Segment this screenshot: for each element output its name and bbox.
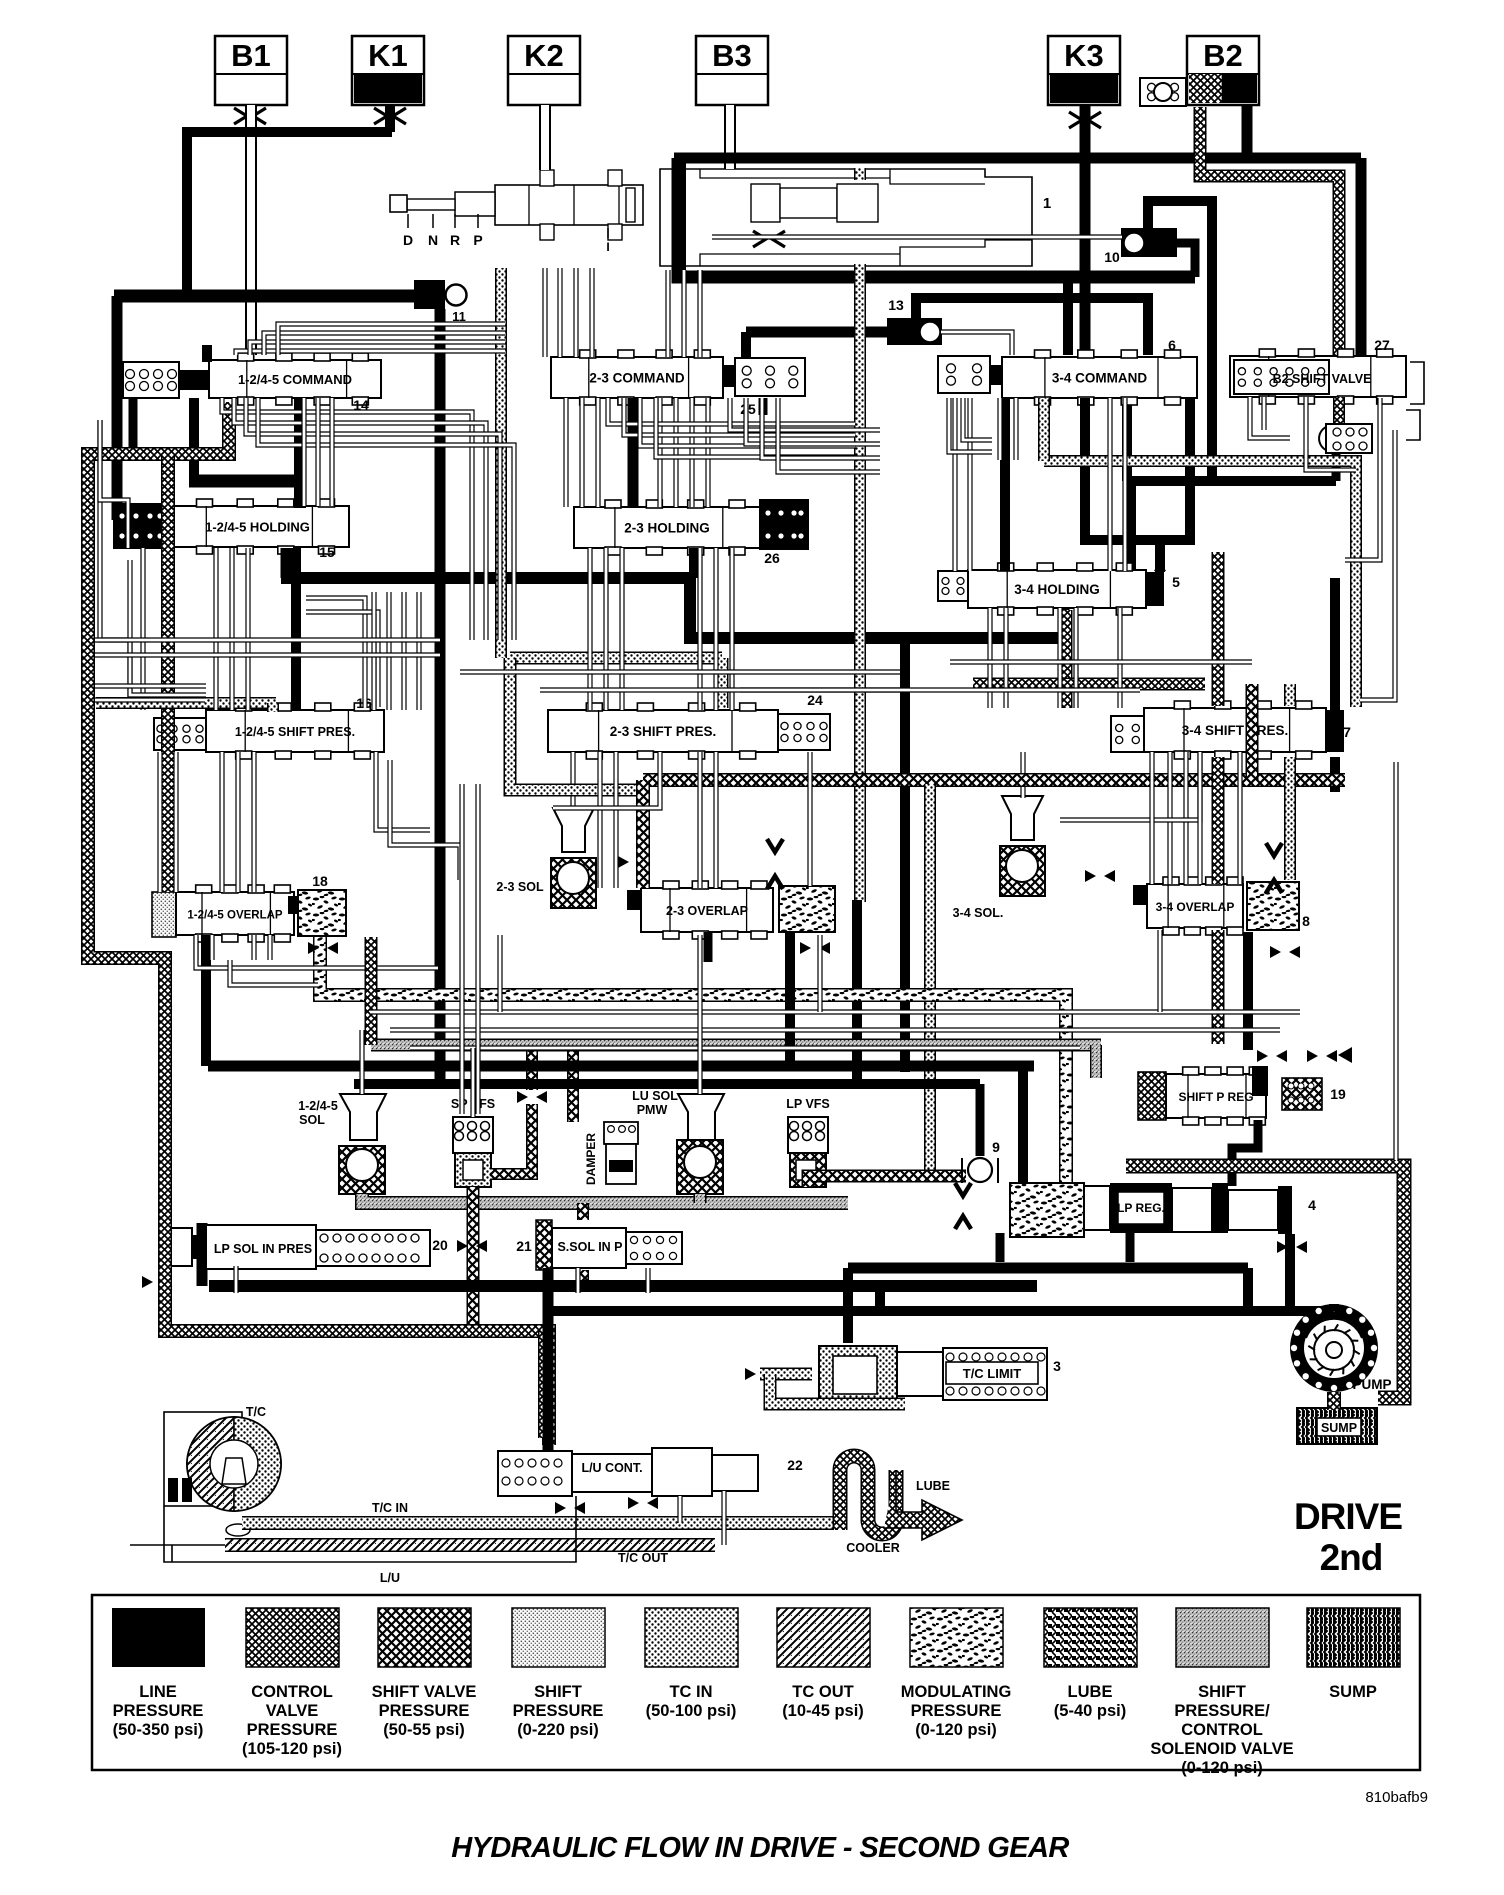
wire: B3 drop <box>724 105 736 169</box>
svg-text:26: 26 <box>764 550 780 566</box>
hatch: damper feed col <box>567 1049 579 1122</box>
legend swatch SHIFT <box>1176 1608 1269 1667</box>
svg-text:3-4 HOLDING: 3-4 HOLDING <box>1014 582 1100 597</box>
svg-text:(50-350 psi): (50-350 psi) <box>113 1721 204 1739</box>
wire: thick bus y1066 <box>208 1061 1034 1072</box>
wire: right vertical to valve27 <box>1356 158 1367 388</box>
wire: 3-4 shift pres right vert <box>1330 578 1340 710</box>
hatch: dotted stub below valve6 <box>1038 398 1050 461</box>
thin bundle: right stack verticals <box>1345 398 1380 560</box>
wire: L/U thin <box>172 1496 576 1562</box>
thin bundle: holding15 to shiftpres16 <box>213 548 218 710</box>
wire: valve25 stub <box>759 398 768 415</box>
svg-text:L/U: L/U <box>380 1571 400 1585</box>
thin loop left of shiftpres16 <box>100 420 130 700</box>
svg-text:(105-120 psi): (105-120 psi) <box>242 1740 342 1758</box>
wire: B2 cv hatched drop <box>1200 107 1339 360</box>
svg-text:LU SOL: LU SOL <box>632 1089 678 1103</box>
manual valve black porting C <box>672 158 686 276</box>
hatch: 3-4 area horizontal <box>973 678 1205 691</box>
bracket right of valve27 <box>1410 362 1424 404</box>
clutch box K2 <box>508 36 580 105</box>
wire: valve6 right drop <box>1122 398 1132 481</box>
wire: bus1084 segment <box>354 1079 980 1089</box>
hatch: tc to lucont <box>242 1516 258 1530</box>
wire: command14 top stub <box>202 345 212 362</box>
valve 25: 2-3 COMMAND <box>551 350 805 405</box>
junction node 10 <box>1121 228 1177 257</box>
wire: lpreg to bus <box>1018 1066 1028 1183</box>
wire: y481 bar <box>189 475 306 488</box>
legend box <box>92 1595 1420 1770</box>
svg-text:(0-220 psi): (0-220 psi) <box>517 1721 599 1739</box>
svg-text:20: 20 <box>432 1237 448 1253</box>
svg-text:I: I <box>606 240 609 254</box>
svg-text:1-2/4-5 COMMAND: 1-2/4-5 COMMAND <box>238 372 352 387</box>
svg-text:B2 SHIFT VALVE: B2 SHIFT VALVE <box>1273 372 1372 386</box>
svg-text:2-3 OVERLAP: 2-3 OVERLAP <box>666 904 748 918</box>
hatch: dotted col x860 <box>854 264 866 902</box>
svg-text:K2: K2 <box>524 38 564 73</box>
thin bundle: 3-4 holding down <box>987 608 992 708</box>
wire: holding15 bottom stub <box>281 548 292 578</box>
solenoid LU SOL PMW <box>677 1094 724 1194</box>
restrictor at B1 <box>234 108 247 124</box>
wire: into 3-4 holding bottom <box>1059 608 1070 638</box>
valve 16: 1-2/4-5 SHIFT PRES. <box>154 703 384 759</box>
svg-text:B3: B3 <box>712 38 752 73</box>
wire: x1248 riser <box>1243 1268 1253 1311</box>
svg-text:4: 4 <box>1308 1197 1316 1213</box>
wire: x905 long vert <box>900 632 910 1072</box>
svg-text:10: 10 <box>1104 249 1120 265</box>
valve 20: LP SOL IN PRES <box>162 1225 430 1269</box>
selector positions D N R P <box>407 214 409 228</box>
legend swatch SHIFT <box>512 1608 605 1667</box>
wire: K2 drop <box>539 105 551 170</box>
check arrows above 2-3 overlap <box>767 839 783 852</box>
svg-text:LUBE: LUBE <box>1068 1683 1113 1701</box>
hatch: sump loop down <box>538 1331 552 1438</box>
restrictor left of 3-4 overlap <box>1085 870 1096 882</box>
svg-text:HYDRAULIC FLOW IN DRIVE - SECO: HYDRAULIC FLOW IN DRIVE - SECOND GEAR <box>451 1832 1069 1864</box>
svg-text:13: 13 <box>888 297 904 313</box>
wire: y277 bus drop into 3-4 command <box>1063 277 1073 355</box>
hatch: valve21 stubs <box>577 1203 589 1220</box>
svg-text:CONTROL: CONTROL <box>251 1683 333 1701</box>
hatch: left margin big loop <box>88 402 549 1445</box>
thin bundle: 3-4 shiftpres down <box>1167 752 1172 884</box>
svg-text:SUMP: SUMP <box>1329 1683 1377 1701</box>
hatch: solenoid common rail <box>362 1194 848 1203</box>
wire: k3 line into holding5 <box>1000 398 1010 571</box>
svg-text:MODULATING: MODULATING <box>901 1683 1012 1701</box>
svg-text:1-2/4-5 SHIFT PRES.: 1-2/4-5 SHIFT PRES. <box>235 725 355 739</box>
wire: node10 up loop <box>1148 201 1212 481</box>
hatch: k2 column dotted <box>495 268 507 658</box>
svg-text:TC IN: TC IN <box>669 1683 712 1701</box>
thin bundle: valve24 conn down <box>807 752 812 886</box>
valve 3: T/C LIMIT <box>819 1346 1047 1404</box>
wire: node11 long vertical <box>435 309 446 1084</box>
wire: y578-638 elbow <box>690 578 1064 638</box>
svg-text:(50-100 psi): (50-100 psi) <box>646 1702 737 1720</box>
svg-text:K1: K1 <box>368 38 408 73</box>
thin bundle: 2-3 shiftpres down <box>597 752 602 888</box>
thin bundle: command14 elbows right <box>222 398 472 640</box>
svg-text:T/C IN: T/C IN <box>372 1501 408 1515</box>
wire: tclimit drop <box>843 1268 853 1343</box>
thin bundle: right stack extras <box>1149 752 1154 884</box>
thin bundle: central horizontals <box>95 637 440 642</box>
wire: lpreg bottom drops <box>1126 1233 1135 1262</box>
svg-text:(50-55 psi): (50-55 psi) <box>383 1721 465 1739</box>
hatch: T/C OUT run <box>225 1538 715 1552</box>
hatch: dotted run y461 <box>1044 461 1356 707</box>
restrictor 3-4 holding feed <box>1154 541 1166 552</box>
restrictor at K1 <box>374 108 387 124</box>
svg-text:8: 8 <box>1302 913 1310 929</box>
wire: lpreg right drop <box>1285 1234 1295 1311</box>
svg-text:D: D <box>403 232 413 248</box>
svg-text:LP REG.: LP REG. <box>1117 1201 1165 1215</box>
valve 24: 2-3 SHIFT PRES. <box>548 703 830 759</box>
svg-text:VALVE: VALVE <box>266 1702 319 1720</box>
hatch: left tall channel x168 <box>161 455 175 892</box>
label SUMP <box>1317 1418 1361 1436</box>
valve 8: 3-4 OVERLAP <box>1133 877 1299 935</box>
check arrows above 3-4 overlap <box>1266 843 1282 856</box>
cooler coil <box>840 1456 896 1534</box>
wire: 2-3 overlap bottom stub <box>704 932 713 962</box>
valve 7: 3-4 SHIFT PRES. <box>1111 701 1344 759</box>
valve 19: SHIFT P REG <box>1138 1066 1322 1125</box>
svg-text:PRESSURE: PRESSURE <box>911 1702 1002 1720</box>
valve 6: 3-4 COMMAND <box>938 350 1197 405</box>
thin bundle: shiftpres16 down <box>219 752 224 892</box>
thin bundle: overlap row to solenoid row <box>497 935 502 1012</box>
svg-text:810bafb9: 810bafb9 <box>1365 1789 1428 1806</box>
svg-text:LINE: LINE <box>139 1683 177 1701</box>
solenoid LP VFS <box>788 1117 828 1187</box>
solenoid 2-3 SOL <box>551 808 596 908</box>
wire: node10 right J <box>1177 243 1195 277</box>
valve 5: 3-4 HOLDING <box>938 563 1164 615</box>
svg-text:2-3 COMMAND: 2-3 COMMAND <box>589 371 685 386</box>
hatch: 2-3 shiftpres loop <box>510 652 722 665</box>
hatch: T/C IN run <box>258 1516 838 1530</box>
wire: K1 drop <box>385 105 395 132</box>
legend swatch LINE <box>112 1608 205 1667</box>
wire: valve6 bottom loop <box>1085 398 1190 540</box>
thin: right margin drop <box>1393 762 1398 1160</box>
svg-text:2-3 SHIFT PRES.: 2-3 SHIFT PRES. <box>610 724 717 739</box>
svg-text:24: 24 <box>807 692 823 708</box>
wire: x790 drop <box>785 932 795 1066</box>
wire: x543 drop to LU cont <box>543 1268 554 1478</box>
thin bundle: sol drops to valve20/21 <box>233 1266 238 1293</box>
svg-text:9: 9 <box>992 1139 1000 1155</box>
svg-text:21: 21 <box>516 1238 532 1254</box>
valve 18: 1-2/4-5 OVERLAP <box>152 885 346 942</box>
clutch box B2 <box>1187 36 1259 105</box>
restrictor below 3-4 overlap <box>1270 946 1281 958</box>
hatch: right channel x1290 <box>1284 684 1296 706</box>
svg-text:19: 19 <box>1330 1086 1346 1102</box>
svg-text:S.SOL IN P: S.SOL IN P <box>557 1240 622 1254</box>
valve 21: S.SOL IN P <box>536 1220 682 1270</box>
restrictors below lu cont <box>555 1502 566 1514</box>
legend swatch CONTROL <box>246 1608 339 1667</box>
valve 14: 1-2/4-5 COMMAND <box>123 353 381 405</box>
hatch: tclimit channel <box>760 1368 812 1381</box>
svg-text:5: 5 <box>1172 574 1180 590</box>
svg-text:18: 18 <box>312 873 328 889</box>
thin bundle: command14 down to holding <box>301 398 306 506</box>
valve 22: L/U CONT. <box>498 1448 758 1496</box>
sump box <box>1297 1408 1377 1444</box>
hatch: right channel x1218 lower <box>1212 930 1225 1044</box>
thin bundle: overlap row horizontals <box>196 937 438 968</box>
svg-text:L/U CONT.: L/U CONT. <box>581 1461 642 1475</box>
svg-text:3-4 COMMAND: 3-4 COMMAND <box>1052 371 1148 386</box>
svg-text:P: P <box>473 232 482 248</box>
svg-text:PRESSURE: PRESSURE <box>513 1702 604 1720</box>
restrictor right of SP VFS <box>517 1091 528 1103</box>
solenoid 1-2/4-5 SOL <box>339 1094 386 1194</box>
svg-text:1: 1 <box>1043 195 1051 212</box>
torque converter T/C <box>164 1412 281 1536</box>
thin bundle: left stack extras <box>157 752 162 892</box>
restrictor in manual valve <box>753 231 766 247</box>
hatch: pump to sump <box>1327 1392 1341 1410</box>
clutch box B3 <box>696 36 768 105</box>
manual valve left spool <box>390 170 643 240</box>
valve 27: B2 SHIFT VALVE <box>1230 349 1406 404</box>
valve 2: 2-3 OVERLAP <box>627 881 835 939</box>
hatch: spc run y1045 <box>371 1039 1101 1052</box>
thin bundle: spvfs column pair <box>459 784 464 1114</box>
wire: manual valve to node10 thin <box>712 234 1122 239</box>
wire: bus y1268 <box>848 1263 1248 1274</box>
hatch: dotted col x860 tab <box>854 168 866 180</box>
restrictors above valve19 <box>1257 1050 1268 1062</box>
svg-text:DAMPER: DAMPER <box>584 1133 598 1185</box>
svg-text:3-4 OVERLAP: 3-4 OVERLAP <box>1156 900 1235 914</box>
hatch: sv long run y780 <box>643 773 1345 787</box>
legend swatch TC IN <box>645 1608 738 1667</box>
thin bundle: 2-3 command right staircase <box>730 398 880 430</box>
wire: x857 black lower <box>852 900 862 1084</box>
wire: valve19 bottom elbow <box>1232 1120 1258 1186</box>
connector plug below b2sv <box>1319 424 1372 453</box>
restrictor left of sump loop <box>142 1276 153 1288</box>
hatch: mod run y995 <box>320 937 1066 1183</box>
hatch: 3-4 shiftpres feed <box>1060 610 1073 708</box>
svg-text:(0-120 psi): (0-120 psi) <box>915 1721 997 1739</box>
wire: 295 down to shiftpres16 <box>291 548 301 710</box>
wire: B2 black drop <box>1242 105 1253 158</box>
wire: connector drop x1336 <box>1332 452 1341 481</box>
wire: 2-3 holding bottom stub <box>689 548 699 578</box>
wire: bus1066 left riser <box>201 935 211 1066</box>
svg-text:2nd: 2nd <box>1320 1537 1383 1578</box>
clutch box K1 <box>352 36 424 105</box>
wire: right black col x1248 <box>1243 932 1253 1050</box>
svg-text:(0-120 psi): (0-120 psi) <box>1181 1759 1263 1777</box>
hatch: lusol drop <box>694 1194 707 1203</box>
restrictor below 2-3 overlap <box>800 942 811 954</box>
hatch: sv drop to 2-3 overlap <box>636 780 650 888</box>
wire: valve7 right end down <box>1330 757 1340 792</box>
svg-text:CONTROL: CONTROL <box>1181 1721 1263 1739</box>
legend swatch SUMP <box>1307 1608 1400 1667</box>
hatch: sv right vert <box>1246 684 1259 780</box>
restrictor below LP REG <box>1277 1241 1288 1253</box>
svg-text:K3: K3 <box>1064 38 1104 73</box>
thin: tc body lines <box>164 1506 172 1562</box>
hatch: b2sv bottom stub <box>1333 397 1345 424</box>
wire: connector14 drop <box>129 398 138 448</box>
svg-text:6: 6 <box>1168 337 1176 353</box>
hatch: right tall channel x1218 <box>1212 552 1225 706</box>
thin bundle: 2-3 holding down <box>587 548 592 710</box>
check arrows below node9 <box>955 1183 971 1196</box>
legend swatch TC OUT <box>777 1608 870 1667</box>
thin bundle: below b2sv <box>1250 397 1290 438</box>
svg-text:PUMP: PUMP <box>1352 1377 1391 1392</box>
restrictor at K3 <box>1069 112 1082 128</box>
hatch: spc downturn to valve19 <box>1090 1045 1102 1078</box>
junction node 13 <box>887 318 942 345</box>
hatch: col x930 tcin <box>924 784 936 1176</box>
svg-text:(10-45 psi): (10-45 psi) <box>782 1702 864 1720</box>
thin bundle: central cross y650-700 <box>540 687 905 692</box>
legend swatch LUBE <box>1044 1608 1137 1667</box>
junction node 11 <box>414 280 445 309</box>
solenoid 3-4 SOL <box>1000 796 1045 896</box>
svg-text:SHIFT: SHIFT <box>1198 1683 1246 1701</box>
wire: node13 left bus <box>746 327 887 338</box>
svg-text:22: 22 <box>787 1457 803 1473</box>
wire: K1 to left elbow <box>187 132 392 296</box>
wire: lower bus y1311 <box>548 1306 1334 1316</box>
lube arrow <box>884 1470 962 1540</box>
damper <box>604 1122 638 1184</box>
valve 15: 1-2/4-5 HOLDING <box>114 499 349 554</box>
svg-text:SOLENOID VALVE: SOLENOID VALVE <box>1150 1740 1293 1758</box>
wire: valve20 left vert <box>197 1223 208 1286</box>
wire: K3 drop <box>1080 105 1091 355</box>
svg-text:T/C LIMIT: T/C LIMIT <box>963 1366 1022 1381</box>
thin bundle: overlap18 stubs <box>193 935 198 960</box>
svg-text:2-3 SOL: 2-3 SOL <box>496 880 544 894</box>
wire: pump feed <box>1329 1304 1339 1311</box>
svg-text:SHIFT P REG: SHIFT P REG <box>1178 1090 1253 1104</box>
svg-text:(5-40 psi): (5-40 psi) <box>1054 1702 1126 1720</box>
wire: drop to 3-4 holding top <box>1126 481 1136 571</box>
valve 26: 2-3 HOLDING <box>574 500 808 555</box>
clutch box K3 <box>1048 36 1120 105</box>
svg-text:PRESSURE: PRESSURE <box>379 1702 470 1720</box>
connector left of B2 <box>1140 78 1186 106</box>
svg-text:TC OUT: TC OUT <box>792 1683 853 1701</box>
svg-text:N: N <box>428 232 438 248</box>
thin bundle: 3-4 command left connector loops <box>949 398 992 452</box>
hatch: pump suction loop <box>1126 1166 1404 1398</box>
svg-text:SHIFT VALVE: SHIFT VALVE <box>372 1683 477 1701</box>
thin loops right of x296 drop <box>306 598 365 707</box>
wire: 3-4 sol stem <box>1020 752 1025 798</box>
svg-text:1-2/4-5 HOLDING: 1-2/4-5 HOLDING <box>205 520 310 535</box>
hatch: overlap18 cv drop <box>365 937 378 1045</box>
wire: command14 bottom stubs <box>189 398 199 481</box>
svg-text:B2: B2 <box>1203 38 1243 73</box>
node 9 check valve <box>968 1158 992 1182</box>
hatch: sump loop left <box>165 1222 553 1331</box>
wire: node13 thin right <box>941 332 1012 355</box>
wire: x880 jog <box>875 1286 885 1311</box>
wire: node13 up-right <box>916 298 1148 355</box>
svg-text:LUBE: LUBE <box>916 1479 950 1493</box>
svg-text:B1: B1 <box>231 38 271 73</box>
svg-text:T/C: T/C <box>246 1405 266 1419</box>
hatch: left y703 channel <box>96 697 276 709</box>
svg-text:T/C OUT: T/C OUT <box>618 1551 668 1565</box>
svg-text:R: R <box>450 232 460 248</box>
svg-text:2-3 HOLDING: 2-3 HOLDING <box>624 521 710 536</box>
wire: far-left drop to holding block <box>112 296 123 520</box>
pump <box>1290 1304 1378 1392</box>
wire: drop into 3-4 holding <box>1155 540 1165 572</box>
wire: B1 drop <box>245 105 257 355</box>
wire: line bus y296 <box>114 290 434 303</box>
restrictor on tclimit line <box>745 1368 756 1380</box>
hatch: spvfs drop <box>467 1187 480 1331</box>
hatch: lpvfs to node9 <box>808 1176 966 1187</box>
svg-text:PMW: PMW <box>637 1103 668 1117</box>
wire: line bus y1286 <box>209 1280 1037 1292</box>
svg-text:COOLER: COOLER <box>846 1541 899 1555</box>
svg-text:15: 15 <box>319 544 335 560</box>
svg-text:3-4 SHIFT PRES.: 3-4 SHIFT PRES. <box>1182 723 1289 738</box>
solenoid SP VFS <box>453 1117 493 1187</box>
svg-text:PRESSURE: PRESSURE <box>113 1702 204 1720</box>
wire: top-right line bus y158 <box>674 153 1361 164</box>
svg-text:27: 27 <box>1374 337 1390 353</box>
svg-text:1-2/4-5: 1-2/4-5 <box>298 1099 338 1113</box>
wire: manual valve lower bus y277 <box>678 158 1195 277</box>
svg-text:7: 7 <box>1343 724 1351 740</box>
wire: 2-3 command left drop <box>628 398 639 508</box>
thin bundle: 2-3 command down <box>563 398 568 507</box>
svg-text:1-2/4-5 OVERLAP: 1-2/4-5 OVERLAP <box>187 910 283 922</box>
valve 4: LP REG <box>1010 1183 1292 1237</box>
wire: node9 feed <box>976 1084 985 1156</box>
thin bundle: long horizontals above bus1066 <box>370 1009 1300 1014</box>
thin bundle: left edge loops <box>100 420 128 548</box>
wire: y481 right bus <box>1127 476 1336 486</box>
restrictor right of overlap18 <box>308 942 319 954</box>
thin bundle: k2-b3 to 2-3 command <box>542 268 547 357</box>
wire: node13 drop to 2-3 command <box>741 332 751 358</box>
svg-text:LP VFS: LP VFS <box>786 1097 830 1111</box>
svg-text:SUMP: SUMP <box>1321 1421 1357 1435</box>
svg-text:DRIVE: DRIVE <box>1294 1496 1402 1537</box>
thin bundle: lucont right side <box>677 1496 682 1523</box>
clutch box B1 <box>215 36 287 105</box>
restrictor right of valve20 <box>457 1240 468 1252</box>
